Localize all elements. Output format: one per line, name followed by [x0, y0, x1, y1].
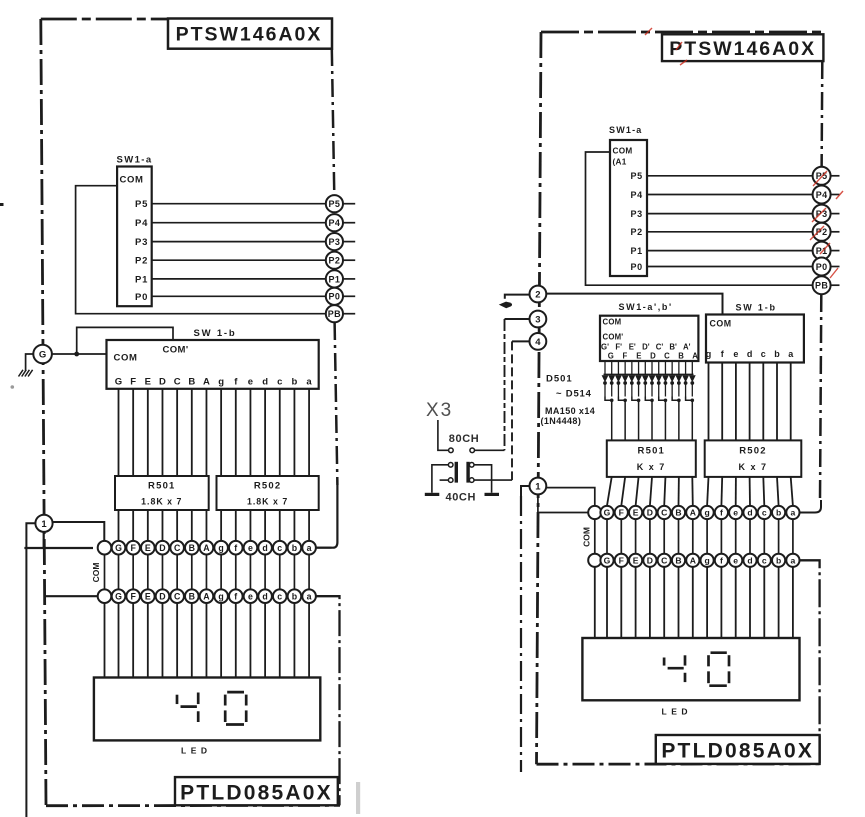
svg-text:PTLD085A0X: PTLD085A0X [180, 781, 333, 804]
svg-text:G: G [115, 377, 122, 388]
svg-text:1: 1 [535, 482, 541, 493]
svg-text:LED: LED [662, 707, 693, 717]
svg-text:f: f [234, 543, 237, 553]
svg-text:COM: COM [613, 147, 633, 156]
svg-text:PTSW146A0X: PTSW146A0X [669, 38, 816, 60]
svg-text:K x 7: K x 7 [738, 462, 767, 472]
svg-text:g: g [706, 349, 712, 359]
svg-text:P1: P1 [135, 274, 148, 285]
svg-text:X3: X3 [426, 400, 453, 421]
svg-text:R501: R501 [148, 481, 176, 492]
svg-text:C': C' [656, 343, 664, 352]
svg-text:G: G [115, 591, 122, 601]
svg-text:G: G [608, 352, 614, 361]
svg-text:A: A [203, 543, 210, 553]
svg-text:d: d [262, 543, 267, 553]
svg-text:c: c [761, 349, 766, 359]
svg-text:e: e [733, 555, 738, 565]
svg-text:P4: P4 [328, 218, 340, 228]
svg-text:F: F [130, 591, 136, 601]
svg-text:COM': COM' [163, 345, 189, 356]
svg-text:G: G [604, 555, 611, 565]
svg-text:1: 1 [41, 519, 47, 530]
svg-text:c: c [277, 591, 282, 601]
svg-text:COM: COM [582, 527, 592, 547]
svg-text:c: c [277, 377, 282, 388]
svg-text:P3: P3 [631, 209, 643, 219]
svg-text:A: A [203, 377, 210, 388]
svg-text:f: f [234, 591, 237, 601]
svg-text:A': A' [683, 343, 691, 352]
svg-text:E: E [633, 555, 639, 565]
svg-text:g: g [704, 508, 709, 518]
svg-text:P5: P5 [135, 199, 148, 210]
svg-text:a: a [791, 508, 796, 518]
svg-text:B: B [188, 377, 195, 388]
svg-text:C: C [661, 555, 667, 565]
svg-text:PTLD085A0X: PTLD085A0X [661, 739, 814, 762]
svg-text:P1: P1 [631, 246, 643, 256]
svg-text:1.8K x 7: 1.8K x 7 [141, 496, 182, 506]
svg-text:e: e [248, 377, 253, 388]
svg-text:C: C [664, 352, 670, 361]
svg-text:P0: P0 [328, 292, 340, 302]
svg-text:D: D [159, 591, 165, 601]
svg-text:c: c [762, 508, 767, 518]
svg-text:(A1: (A1 [613, 158, 627, 167]
svg-text:f: f [720, 555, 723, 565]
svg-text:b: b [774, 349, 780, 359]
svg-text:P2: P2 [135, 256, 148, 267]
svg-text:B: B [678, 352, 684, 361]
svg-text:C: C [174, 591, 181, 601]
svg-text:B: B [189, 591, 195, 601]
svg-text:d: d [747, 349, 753, 359]
svg-text:R502: R502 [254, 481, 282, 492]
svg-text:P2: P2 [631, 227, 643, 237]
svg-text:P4: P4 [135, 218, 148, 229]
svg-text:E: E [145, 591, 151, 601]
svg-text:D: D [650, 352, 656, 361]
svg-text:P2: P2 [328, 256, 340, 266]
svg-text:P5: P5 [328, 199, 340, 209]
svg-text:F: F [619, 555, 624, 565]
svg-text:b: b [292, 377, 298, 388]
svg-text:a: a [307, 543, 312, 553]
svg-text:g: g [704, 555, 709, 565]
svg-text:e: e [248, 591, 253, 601]
svg-text:P5: P5 [631, 171, 643, 181]
svg-text:1.8K x 7: 1.8K x 7 [247, 496, 288, 506]
svg-text:P0: P0 [816, 262, 828, 272]
svg-text:B': B' [669, 343, 677, 352]
svg-text:A: A [692, 352, 698, 361]
svg-text:g: g [218, 377, 224, 388]
svg-text:SW 1-b: SW 1-b [194, 328, 237, 339]
svg-text:PTSW146A0X: PTSW146A0X [176, 23, 323, 45]
svg-text:SW 1-b: SW 1-b [736, 303, 777, 313]
svg-text:(1N4448): (1N4448) [541, 416, 582, 426]
svg-text:4: 4 [535, 337, 541, 348]
svg-text:SW1-a: SW1-a [117, 155, 153, 166]
svg-text:b: b [292, 543, 298, 553]
svg-text:P0: P0 [135, 292, 148, 303]
svg-text:PB: PB [328, 309, 341, 319]
svg-text:E: E [145, 377, 151, 388]
svg-text:G': G' [601, 343, 609, 352]
svg-text:C: C [174, 377, 181, 388]
svg-text:C: C [661, 508, 667, 518]
svg-text:F: F [619, 508, 624, 518]
svg-text:3: 3 [535, 314, 540, 325]
svg-text:e: e [733, 508, 738, 518]
svg-text:D: D [647, 508, 653, 518]
svg-text:SW1-a',b': SW1-a',b' [619, 302, 673, 312]
svg-text:F: F [130, 377, 136, 388]
svg-text:P1: P1 [328, 274, 340, 284]
svg-text:g: g [218, 591, 223, 601]
svg-text:G: G [115, 543, 122, 553]
svg-text:D: D [159, 377, 166, 388]
svg-text:E': E' [629, 343, 636, 352]
svg-text:A: A [203, 591, 210, 601]
svg-text:COM: COM [710, 319, 732, 329]
svg-text:F: F [130, 543, 136, 553]
svg-text:C: C [174, 543, 181, 553]
svg-text:P4: P4 [816, 190, 828, 200]
svg-text:c: c [762, 555, 767, 565]
svg-text:COM': COM' [603, 333, 624, 342]
svg-text:P3: P3 [328, 237, 340, 247]
svg-text:a: a [791, 555, 796, 565]
svg-text:b: b [776, 508, 781, 518]
svg-text:A: A [690, 508, 696, 518]
svg-text:R501: R501 [638, 446, 666, 457]
svg-text:g: g [218, 543, 223, 553]
svg-text:d: d [262, 591, 267, 601]
svg-text:D: D [159, 543, 165, 553]
svg-text:COM: COM [114, 353, 138, 364]
svg-text:e: e [248, 543, 253, 553]
svg-text:d: d [262, 377, 268, 388]
svg-text:f: f [720, 508, 723, 518]
svg-text:D': D' [642, 343, 650, 352]
svg-text:P3: P3 [135, 237, 148, 248]
svg-text:D: D [647, 555, 653, 565]
svg-text:E: E [636, 352, 641, 361]
svg-text:80CH: 80CH [449, 433, 480, 445]
svg-text:E: E [633, 508, 639, 518]
svg-text:E: E [145, 543, 151, 553]
svg-text:c: c [277, 543, 282, 553]
svg-text:e: e [733, 349, 738, 359]
svg-text:COM: COM [603, 318, 622, 327]
svg-text:MA150 x14: MA150 x14 [545, 406, 595, 416]
svg-text:B: B [675, 555, 681, 565]
svg-text:2: 2 [535, 289, 540, 300]
svg-text:COM: COM [91, 563, 101, 583]
svg-text:d: d [747, 508, 752, 518]
svg-text:R502: R502 [739, 446, 767, 457]
svg-text:LED: LED [181, 746, 212, 756]
svg-text:F: F [622, 352, 627, 361]
svg-text:P0: P0 [631, 262, 643, 272]
svg-text:PB: PB [815, 281, 828, 291]
svg-text:G: G [39, 350, 46, 361]
svg-text:b: b [776, 555, 781, 565]
svg-text:COM: COM [120, 175, 144, 186]
svg-text:K x 7: K x 7 [637, 462, 666, 472]
svg-text:~ D514: ~ D514 [556, 388, 592, 399]
svg-text:A: A [690, 555, 696, 565]
svg-text:F': F' [615, 343, 622, 352]
svg-text:SW1-a: SW1-a [609, 125, 643, 135]
svg-text:B: B [189, 543, 195, 553]
svg-text:B: B [675, 508, 681, 518]
svg-text:d: d [747, 555, 752, 565]
svg-text:G: G [604, 508, 611, 518]
svg-text:P4: P4 [631, 190, 643, 200]
svg-text:a: a [307, 591, 312, 601]
svg-text:D501: D501 [546, 374, 573, 385]
svg-text:a: a [306, 377, 312, 388]
svg-text:b: b [292, 591, 298, 601]
svg-text:40CH: 40CH [446, 492, 477, 504]
